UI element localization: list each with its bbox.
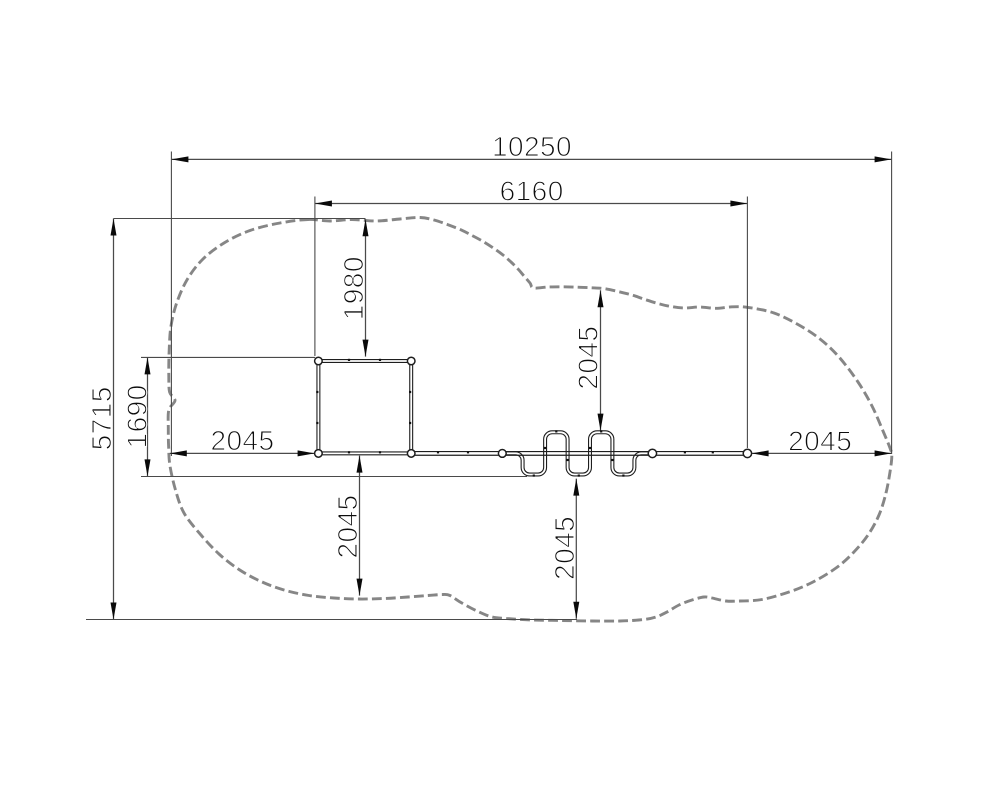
horizontal balance beam (two outline lines) <box>411 451 747 453</box>
svg-text:5715: 5715 <box>86 386 117 450</box>
dimension 1690 equipment height: bottom arrowhead <box>145 459 151 476</box>
svg-text:1980: 1980 <box>338 256 369 320</box>
square frame post, bottom-left <box>315 450 323 458</box>
extension line: square left vertical (for 6160) <box>314 197 316 357</box>
dimension 10250 overall width: left arrowhead <box>171 156 188 162</box>
dimension 1980 top clearance: top arrowhead <box>363 219 369 236</box>
dimension 2045 lower middle clearance: top arrowhead <box>573 479 579 496</box>
dimension 5715 overall height: bottom arrowhead <box>111 603 117 620</box>
dimension 6160 inner width: right arrowhead <box>730 201 747 207</box>
dimension 2045 upper middle clearance: top arrowhead <box>598 290 604 307</box>
dimension 1690 equipment height: top arrowhead <box>145 357 151 374</box>
beam post right <box>743 449 751 457</box>
svg-text:2045: 2045 <box>210 425 274 456</box>
svg-text:2045: 2045 <box>572 326 603 390</box>
svg-text:10250: 10250 <box>492 131 572 162</box>
dimension 10250 overall width: line <box>171 158 891 160</box>
extension line: blob right edge vertical (for 10250 / 2045) <box>891 152 893 455</box>
dimension 2045 right clearance: right arrowhead <box>875 450 892 456</box>
dimension 1980 top clearance: line <box>365 219 367 356</box>
square frame post, top-left <box>315 357 323 365</box>
dimension 5715 overall height: line <box>113 219 115 620</box>
dimension 2045 lower middle clearance: line <box>575 479 577 619</box>
extension line: blob top edge (for 5715 / 1980) <box>114 218 366 220</box>
dimension 2045 left clearance: right arrowhead <box>298 450 315 456</box>
extension line: blob left edge vertical (for 10250 / 2045) <box>170 152 172 457</box>
wave balance beam (snake) (tube outline) <box>506 432 650 474</box>
dimension 2045 lower left clearance: line <box>359 456 361 596</box>
dimension 1980 top clearance: bottom arrowhead <box>363 340 369 357</box>
square frame post, bottom-right <box>407 450 415 458</box>
dimension 1690 equipment height: line <box>147 357 149 476</box>
dimension 2045 left clearance: line <box>170 452 315 454</box>
svg-text:1690: 1690 <box>122 384 153 448</box>
svg-text:2045: 2045 <box>549 516 580 580</box>
svg-text:2045: 2045 <box>332 494 363 558</box>
safety-area outline (grey dashed blob) <box>168 217 892 621</box>
dimension 2045 right clearance: line <box>752 452 892 454</box>
dimension 10250 overall width: right arrowhead <box>875 156 892 162</box>
dimension 2045 left clearance: left arrowhead <box>170 450 187 456</box>
dimension 2045 upper middle clearance: line <box>600 290 602 430</box>
extension line: wave bottom horizontal (for 1690) <box>141 476 527 478</box>
small weld tick marks on tubes <box>348 359 350 361</box>
beam post left <box>498 450 506 458</box>
extension line: square top horizontal (for 1690 / 1980) <box>141 356 315 358</box>
dimension 6160 inner width: line <box>315 203 748 205</box>
dimension 6160 inner width: left arrowhead <box>315 201 332 207</box>
beam post middle <box>648 449 656 457</box>
extension line: blob bottom edge (for 5715 / 2045) <box>86 619 577 621</box>
square climbing frame (tube outline) <box>318 361 411 453</box>
dimension 2045 lower left clearance: bottom arrowhead <box>357 579 363 596</box>
square frame post, top-right <box>407 357 415 365</box>
dimension 2045 lower left clearance: top arrowhead <box>357 456 363 473</box>
dimension 2045 upper middle clearance: bottom arrowhead <box>598 414 604 431</box>
dimension 2045 lower middle clearance: bottom arrowhead <box>573 602 579 619</box>
svg-text:2045: 2045 <box>788 426 852 457</box>
dimension 2045 right clearance: left arrowhead <box>752 450 769 456</box>
svg-text:6160: 6160 <box>500 175 564 206</box>
dimension 5715 overall height: top arrowhead <box>111 219 117 236</box>
extension line: right post vertical (for 6160) <box>746 197 748 449</box>
